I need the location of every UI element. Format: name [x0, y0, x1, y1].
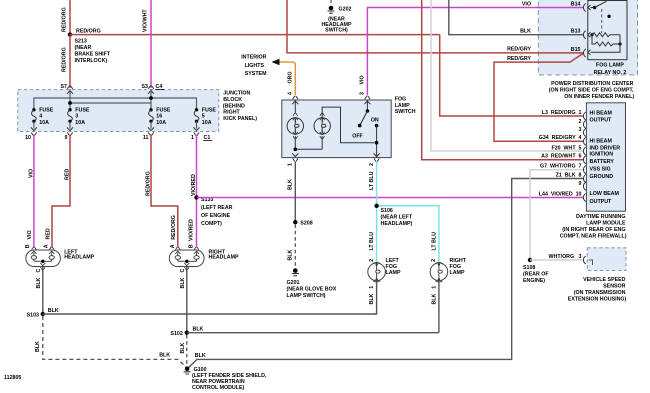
ground G100: [185, 367, 190, 372]
splice S108: [528, 258, 532, 262]
splice S213: [68, 32, 72, 36]
svg-text:ORG: ORG: [288, 71, 294, 83]
svg-text:(ON RIGHT SIDE OF ENG COMPT,: (ON RIGHT SIDE OF ENG COMPT,: [549, 88, 634, 94]
svg-text:A: A: [43, 244, 49, 248]
svg-text:BLK: BLK: [36, 277, 42, 288]
label RED/ORG (rotated, below S213): [62, 47, 68, 72]
svg-text:BLK: BLK: [180, 277, 186, 288]
wire ORG pin 4 to interior lights arrow: [279, 62, 295, 96]
svg-text:DAYTIME RUNNING: DAYTIME RUNNING: [576, 214, 626, 220]
svg-text:LIGHTS: LIGHTS: [245, 63, 265, 69]
svg-text:FUSE: FUSE: [156, 107, 171, 113]
svg-text:RED/ORG: RED/ORG: [76, 29, 101, 35]
svg-text:FUSE: FUSE: [75, 107, 90, 113]
svg-text:C: C: [180, 269, 186, 273]
svg-text:RED/ORG: RED/ORG: [62, 47, 68, 72]
svg-text:S213: S213: [75, 39, 87, 45]
svg-text:10A: 10A: [202, 120, 212, 126]
svg-text:BLK: BLK: [288, 179, 294, 190]
svg-text:4: 4: [288, 92, 294, 95]
svg-text:S3: S3: [142, 84, 149, 90]
node lamp common to pin 1: [294, 148, 298, 152]
svg-text:BLK: BLK: [288, 249, 294, 260]
splice S106: [374, 204, 378, 208]
svg-text:RIGHT: RIGHT: [223, 110, 240, 116]
fog lamp relay no. 2 box: [588, 1, 627, 60]
wire VIO/RED S133 to DRL pin 10 (LOW BEAM OUTPUT): [197, 197, 584, 199]
label BLK (rotated, right fog): [431, 293, 437, 304]
svg-text:COMPT): COMPT): [201, 221, 222, 227]
svg-text:VIO: VIO: [360, 75, 366, 84]
svg-text:G7 WHT/ORG 7: G7 WHT/ORG 7: [540, 164, 582, 170]
pin number 2 (left fog): [369, 259, 375, 262]
svg-text:BLK: BLK: [195, 353, 206, 359]
left headlamp lamp symbol: [26, 247, 61, 270]
svg-text:COMPT, NEAR FIREWALL): COMPT, NEAR FIREWALL): [560, 233, 627, 239]
label BLK (rotated, on S103 dashed drop): [35, 341, 41, 352]
switch contact mechanism OFF/ON: [366, 100, 368, 111]
svg-text:BLK: BLK: [48, 308, 59, 314]
svg-text:S102: S102: [170, 331, 182, 337]
svg-text:LAMP: LAMP: [386, 270, 401, 276]
wire A3 RED/WHT from top to DRL pin 6 (BATTERY): [422, 0, 583, 160]
label VIO (rotated, above switch): [360, 75, 366, 84]
svg-text:BRAKE SHIFT: BRAKE SHIFT: [75, 52, 111, 58]
wire VIO/WHT vertical from top to terminal S3: [150, 0, 152, 88]
ground G202: [329, 6, 334, 11]
pin number 3: [360, 92, 366, 95]
wire RED/GRY relay B15 to DRL pin 4 (G34): [494, 54, 583, 142]
svg-text:RED/ORG: RED/ORG: [171, 215, 177, 240]
svg-text:S108: S108: [523, 265, 535, 271]
wire VIO pin 3 up and right to relay B14: [367, 8, 583, 96]
wire RED fuse3 to left headlamp pin A: [52, 135, 70, 248]
svg-text:LAMP MODULE: LAMP MODULE: [586, 221, 626, 227]
svg-text:BLK: BLK: [193, 327, 204, 333]
svg-text:ENGINE): ENGINE): [523, 278, 545, 284]
svg-text:OF ENGINE: OF ENGINE: [201, 213, 231, 219]
svg-text:2: 2: [579, 119, 582, 125]
svg-text:16: 16: [156, 114, 162, 120]
wire BLK left fog lamp to ground bus: [374, 281, 377, 314]
terminal 11 (bottom): [148, 127, 154, 135]
wire RED/GRY from top to relay B15: [287, 0, 583, 53]
svg-text:10A: 10A: [39, 120, 49, 126]
svg-text:HEADLAMP): HEADLAMP): [381, 221, 413, 227]
svg-text:G34 RED/GRY 4: G34 RED/GRY 4: [539, 135, 582, 141]
svg-text:LT BLU: LT BLU: [369, 171, 375, 190]
svg-text:B14: B14: [571, 2, 581, 8]
svg-text:OUTPUT: OUTPUT: [590, 199, 613, 205]
DRL pin arcs 1-10: [583, 112, 585, 190]
node left headlamp common: [41, 260, 44, 263]
wire VIO/RED fuse5 to right headlamp pin B: [196, 135, 198, 248]
svg-text:5: 5: [202, 114, 205, 120]
relay pin B13: [583, 31, 585, 39]
wire BLK right fog lamp return to S102: [187, 332, 439, 334]
terminal pin 1 (bottom of switch): [292, 153, 298, 161]
svg-text:F20 WHT 5: F20 WHT 5: [551, 145, 581, 151]
label RED (rotated upper): [64, 169, 70, 180]
svg-text:G201: G201: [287, 280, 300, 286]
wire WHT/ORG S108 to VSS pin 3: [530, 259, 583, 261]
svg-text:(BEHIND: (BEHIND: [223, 103, 245, 109]
wire BLK switch pin 1 to S208: [294, 162, 296, 222]
power distribution center (dashed box): [538, 0, 637, 75]
terminal pin 2 (bottom of switch): [374, 153, 380, 161]
relay switch contact and lever: [591, 7, 595, 9]
pin number 1 (right fog): [431, 286, 437, 289]
label BLK (rotated, dashed section): [288, 249, 294, 260]
svg-text:LOW BEAM: LOW BEAM: [590, 191, 620, 197]
svg-text:BLK: BLK: [35, 341, 41, 352]
svg-text:JUNCTION: JUNCTION: [223, 91, 250, 97]
svg-text:HEADLAMP: HEADLAMP: [209, 254, 239, 260]
wire bus lower (fuse3 to fuse16): [70, 102, 151, 104]
right fog lamp: [430, 262, 448, 282]
wire BLK ground bus S103 to left fog lamp: [43, 313, 375, 315]
svg-text:C: C: [36, 269, 42, 273]
svg-text:2: 2: [369, 259, 375, 262]
svg-text:GROUND: GROUND: [590, 174, 614, 180]
wire RED/ORG fuse16 to right headlamp pin A: [151, 135, 178, 248]
splice S102: [185, 331, 189, 335]
wire S3 drop to fuse 16: [150, 89, 152, 110]
fuse F16 10A: [149, 107, 171, 128]
svg-text:(NEAR: (NEAR: [75, 45, 92, 51]
wire BLK (dashed) S103 down and right to G100: [43, 316, 187, 368]
svg-text:SWITCH): SWITCH): [325, 28, 348, 34]
pin 10 arc: [583, 194, 585, 202]
wire (dashed) from top to ground G202: [330, 0, 332, 5]
label BLK (rotated, on S102 dashed drop): [180, 342, 186, 353]
svg-text:B13: B13: [571, 29, 581, 35]
svg-text:VIO: VIO: [522, 2, 531, 8]
svg-text:BLK: BLK: [159, 353, 170, 359]
svg-text:B: B: [189, 244, 195, 248]
wire RED/ORG vertical from top to S213: [69, 0, 71, 35]
VSS pin 3 arc: [583, 256, 585, 264]
svg-text:(NEAR GLOVE BOX: (NEAR GLOVE BOX: [287, 287, 337, 293]
splice S103: [41, 312, 45, 316]
label BLK (rotated, below switch): [288, 179, 294, 190]
svg-text:VSS SIG: VSS SIG: [590, 167, 611, 173]
label VIO (rotated upper): [28, 169, 34, 178]
svg-text:LT BLU: LT BLU: [369, 232, 375, 251]
wire LT BLU S106 branch to right fog lamp: [377, 206, 439, 263]
svg-text:S106: S106: [381, 208, 393, 214]
svg-text:BLK: BLK: [369, 293, 375, 304]
label VIO (rotated lower): [27, 230, 33, 239]
svg-text:1: 1: [369, 286, 375, 289]
pin label B (right headlamp): [189, 244, 195, 248]
svg-text:FUSE: FUSE: [39, 107, 54, 113]
VSS internal stub: [589, 260, 593, 265]
terminal pin 3 (top of switch): [364, 96, 370, 104]
wire BLK right headlamp pin C to S102: [186, 267, 188, 333]
pin number 1 (left fog): [369, 286, 375, 289]
svg-text:VIO/RED: VIO/RED: [191, 174, 197, 196]
node right headlamp common: [185, 260, 188, 263]
label RED/ORG (rotated, top): [62, 7, 68, 32]
svg-text:A: A: [170, 244, 176, 248]
wire BLK left headlamp pin C to S103: [42, 267, 44, 314]
svg-text:3: 3: [75, 114, 78, 120]
svg-text:SENSOR: SENSOR: [603, 283, 626, 289]
svg-text:VIO: VIO: [28, 169, 34, 178]
wire BLK from top to relay B13: [449, 0, 583, 35]
relay resistor: [592, 35, 620, 46]
label BLK (rotated, left headlamp): [36, 277, 42, 288]
relay pin B14: [583, 4, 585, 12]
wire RED/ORG S213 down to terminal S7: [69, 35, 71, 88]
svg-text:G100: G100: [194, 367, 207, 373]
svg-text:2: 2: [369, 163, 375, 166]
label BLK (rotated, right headlamp): [180, 277, 186, 288]
svg-text:LAMP: LAMP: [450, 270, 465, 276]
svg-text:VIO: VIO: [27, 230, 33, 239]
svg-text:ON INNER FENDER PANEL): ON INNER FENDER PANEL): [564, 94, 634, 100]
svg-text:LAMP SWITCH): LAMP SWITCH): [287, 293, 326, 299]
svg-text:VIO/RED: VIO/RED: [189, 219, 195, 241]
svg-text:HI BEAM: HI BEAM: [590, 139, 613, 145]
svg-text:IGNITION: IGNITION: [590, 151, 614, 157]
wire LT BLU S106 to left fog lamp: [376, 206, 378, 263]
label RED (rotated lower): [46, 228, 52, 239]
svg-text:RED: RED: [64, 169, 70, 180]
splice S133: [194, 195, 198, 199]
wire BLK (dashed) S208 to G201: [294, 225, 296, 268]
svg-text:LAMP: LAMP: [395, 103, 410, 109]
svg-text:(ON TRANSMISSION: (ON TRANSMISSION: [574, 290, 626, 296]
label LT BLU (rotated, below switch): [369, 171, 375, 190]
svg-text:A3 RED/WHT 6: A3 RED/WHT 6: [541, 154, 581, 160]
label RED/ORG (rotated lower): [171, 215, 177, 240]
svg-text:RED: RED: [46, 228, 52, 239]
relay coil: [591, 34, 593, 36]
svg-text:3: 3: [360, 92, 366, 95]
svg-text:S7: S7: [61, 84, 68, 90]
node on upper bus at fuse16: [149, 96, 153, 100]
svg-text:INTERLOCK): INTERLOCK): [75, 58, 108, 64]
svg-text:B: B: [25, 244, 31, 248]
relay armature link (dashed): [601, 9, 603, 33]
svg-text:Z1 BLK 8: Z1 BLK 8: [556, 172, 582, 178]
terminal 10 (bottom): [31, 127, 37, 135]
svg-text:B15: B15: [571, 47, 581, 53]
junction block (dashed box): [18, 90, 219, 132]
svg-text:VIO/WHT: VIO/WHT: [143, 9, 149, 32]
svg-text:RED/ORG: RED/ORG: [62, 7, 68, 32]
ground G201: [293, 268, 298, 273]
pin number 4: [288, 92, 294, 95]
wire F20 WHT from top to DRL pin 5 (IGNITION): [431, 0, 583, 151]
left fog lamp: [368, 262, 386, 282]
svg-text:1: 1: [288, 163, 294, 166]
svg-text:LT BLU: LT BLU: [431, 232, 437, 251]
label LT BLU (rotated, right fog): [431, 232, 437, 251]
pin label B (left headlamp): [25, 244, 31, 248]
svg-text:WHT/ORG 3: WHT/ORG 3: [549, 254, 582, 260]
svg-text:9: 9: [65, 135, 68, 141]
label BLK (rotated, left fog): [369, 293, 375, 304]
pin number 2: [369, 163, 375, 166]
pin label A (right headlamp): [170, 244, 176, 248]
label VIO/RED (rotated lower): [189, 219, 195, 241]
wire RED/ORG horizontal S213 to L3 corner: [70, 34, 440, 36]
svg-text:BLK: BLK: [520, 29, 531, 35]
svg-text:11: 11: [143, 135, 149, 141]
label RED/ORG (rotated upper): [145, 171, 151, 196]
svg-text:HEADLAMP: HEADLAMP: [64, 254, 94, 260]
svg-text:S208: S208: [300, 221, 312, 227]
pin label C (left headlamp): [36, 269, 42, 273]
relay pin B15: [583, 49, 585, 57]
wire BLK (dashed) S102 down to G100: [186, 335, 188, 366]
vehicle speed sensor (dashed box): [587, 248, 626, 271]
wire BLK right fog lamp to S102 line: [438, 281, 440, 333]
svg-text:KICK PANEL): KICK PANEL): [223, 116, 257, 122]
svg-text:(LEFT REAR: (LEFT REAR: [201, 205, 233, 211]
svg-text:FUSE: FUSE: [202, 107, 217, 113]
svg-text:L44 VIO/RED 10: L44 VIO/RED 10: [539, 191, 582, 197]
svg-text:RED/GRY: RED/GRY: [507, 47, 531, 53]
wire VIO fuse4 to left headlamp pin B: [33, 135, 35, 248]
svg-text:RED/ORG: RED/ORG: [145, 171, 151, 196]
svg-text:FOG LAMP: FOG LAMP: [596, 63, 624, 69]
svg-text:(REAR OF: (REAR OF: [523, 271, 549, 277]
node on lower bus at fuse3: [68, 101, 72, 105]
svg-text:ON: ON: [371, 117, 379, 123]
svg-text:INTERIOR: INTERIOR: [241, 54, 266, 60]
terminal S3 (top): [148, 86, 154, 94]
svg-text:OUTPUT: OUTPUT: [590, 118, 613, 124]
wire bus upper (fuse4 to fuse5): [34, 98, 197, 110]
fuse F3 10A: [68, 107, 90, 128]
svg-text:10: 10: [25, 135, 31, 141]
wire G7 WHT/ORG DRL pin 7 to S108: [530, 170, 583, 260]
terminal 9 (bottom): [67, 127, 73, 135]
svg-text:BLK: BLK: [180, 342, 186, 353]
terminal 1 (bottom): [194, 127, 200, 135]
svg-text:S103: S103: [27, 312, 39, 318]
terminal S7 (top): [67, 86, 73, 94]
svg-text:VEHICLE SPEED: VEHICLE SPEED: [583, 277, 626, 283]
wire Z1 BLK from DRL pin 8 to G100: [188, 179, 583, 369]
wire L3 RED/ORG to DRL pin 1 (HI BEAM OUTPUT): [440, 35, 583, 116]
svg-text:OFF: OFF: [352, 133, 363, 139]
svg-text:HI BEAM: HI BEAM: [590, 110, 613, 116]
pin number 1: [288, 163, 294, 166]
terminal pin 4 (top of switch): [292, 96, 298, 104]
right headlamp lamp symbol: [169, 247, 204, 270]
svg-text:G202: G202: [339, 7, 352, 13]
svg-text:BLK: BLK: [431, 293, 437, 304]
svg-text:RELAY NO. 2: RELAY NO. 2: [594, 70, 627, 76]
daytime running lamp module box: [586, 103, 625, 211]
pin label A (left headlamp): [43, 244, 49, 248]
svg-text:BATTERY: BATTERY: [590, 159, 615, 165]
svg-text:(IN RIGHT REAR OF ENG: (IN RIGHT REAR OF ENG: [562, 227, 625, 233]
label VIO/RED (rotated upper): [191, 174, 197, 196]
svg-text:CONTROL MODULE): CONTROL MODULE): [192, 385, 245, 391]
svg-text:9: 9: [579, 181, 582, 187]
svg-text:1: 1: [191, 135, 194, 141]
switch illumination lamp (left lamp in switch): [287, 100, 303, 149]
svg-text:3: 3: [579, 127, 582, 133]
svg-text:L3 RED/ORG 1: L3 RED/ORG 1: [542, 110, 582, 116]
pin number 2 (right fog): [431, 259, 437, 262]
switch indicator lamp (right lamp in switch): [295, 107, 374, 149]
svg-text:4: 4: [39, 114, 42, 120]
svg-text:112805: 112805: [4, 375, 21, 381]
svg-text:RED/GRY: RED/GRY: [507, 56, 531, 62]
relay output to B15: [591, 35, 621, 53]
svg-text:2: 2: [431, 259, 437, 262]
label ORG (rotated): [288, 71, 294, 83]
fuse F4 10A: [32, 107, 54, 128]
svg-text:(NEAR LEFT: (NEAR LEFT: [381, 214, 413, 220]
fog lamp switch box: [282, 100, 391, 158]
svg-text:BLOCK: BLOCK: [223, 97, 242, 103]
label VIO/WHT (rotated): [143, 9, 149, 32]
svg-text:FOG: FOG: [395, 97, 406, 103]
arrowhead to interior lights system: [272, 59, 280, 65]
splice S208: [293, 220, 297, 224]
svg-text:10A: 10A: [75, 120, 85, 126]
pin label C (right headlamp): [180, 269, 186, 273]
svg-text:SYSTEM: SYSTEM: [245, 71, 267, 77]
svg-text:10A: 10A: [156, 120, 166, 126]
svg-text:EXTENSION HOUSING): EXTENSION HOUSING): [568, 297, 627, 303]
svg-text:SWITCH: SWITCH: [395, 109, 416, 115]
svg-text:1: 1: [431, 286, 437, 289]
svg-text:POWER DISTRIBUTION CENTER: POWER DISTRIBUTION CENTER: [551, 81, 634, 87]
fuse F5 10A: [194, 107, 216, 128]
wire S7 drop to fuse 3: [69, 89, 71, 110]
label LT BLU (rotated, left fog): [369, 232, 375, 251]
wire LT BLU switch pin 2 to S106: [376, 162, 378, 206]
